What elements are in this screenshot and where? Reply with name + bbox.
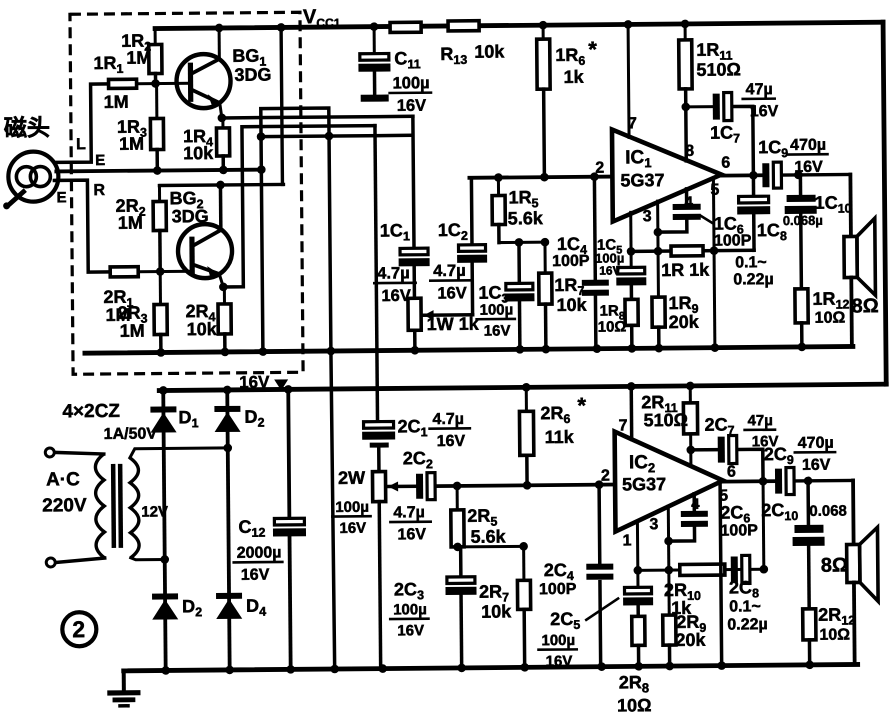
- wire L channel lead: [57, 84, 110, 162]
- capacitor 1C6 100P: [685, 189, 689, 204]
- diode D2: [214, 406, 240, 412]
- wire rectifier branch D1-D3: [163, 390, 165, 670]
- potentiometer 1W 1k: [408, 298, 421, 330]
- preamp dashed enclosure: [70, 12, 303, 374]
- svg-text:47µ: 47µ: [747, 412, 772, 429]
- wire BG2 emitter to 2C1 run: [222, 126, 376, 287]
- svg-text:6: 6: [727, 463, 736, 480]
- capacitor 2C9 470u/16V: [775, 469, 782, 494]
- transistor BG2 3DG: [178, 224, 232, 278]
- wire 2R5 bottom node: [458, 545, 524, 549]
- resistor 2R9 20k: [663, 615, 676, 645]
- terminal AC bottom: [46, 558, 55, 567]
- diode D3: [152, 593, 178, 599]
- svg-text:3DG: 3DG: [234, 65, 271, 85]
- capacitor 1C3 100u/16V: [517, 242, 521, 283]
- svg-text:16V: 16V: [339, 520, 366, 537]
- capacitor 1C10 0.068u: [799, 175, 803, 195]
- transformer secondary winding 12V: [130, 458, 139, 558]
- svg-text:100µ: 100µ: [541, 632, 575, 649]
- svg-text:6: 6: [721, 155, 730, 172]
- capacitor 1C8 0.1-0.22u: [752, 175, 756, 196]
- ground symbol: [122, 671, 126, 693]
- wire BG2 base line: [138, 270, 192, 273]
- svg-text:100P: 100P: [539, 581, 577, 598]
- svg-text:4.7µ: 4.7µ: [393, 504, 425, 521]
- capacitor C12 2000u/16V: [288, 389, 289, 518]
- resistor 2R3 1M: [159, 272, 162, 305]
- wire rectifier branch D2-D4: [227, 390, 229, 670]
- resistor 1R 1k: [671, 246, 703, 256]
- capacitor C11 100u/16V: [373, 27, 376, 54]
- svg-text:1W 1k: 1W 1k: [427, 314, 480, 334]
- wire BG1 emitter node: [220, 103, 222, 118]
- capacitor 2C3 100u/16V: [459, 547, 463, 577]
- magnetic head input transducer: [8, 151, 58, 201]
- svg-text:100P: 100P: [552, 253, 590, 270]
- svg-text:5G37: 5G37: [622, 474, 666, 494]
- op-amp IC1 5G37: [612, 129, 722, 222]
- capacitor 2C4 100P: [597, 485, 601, 564]
- resistor 1R3 1M: [155, 84, 158, 119]
- svg-text:16V: 16V: [397, 526, 426, 543]
- svg-text:3DG: 3DG: [172, 206, 209, 226]
- resistor R13a: [390, 22, 421, 32]
- svg-text:1k: 1k: [671, 598, 692, 618]
- svg-text:8Ω: 8Ω: [851, 295, 878, 317]
- resistor 2R4 10k: [223, 287, 226, 304]
- svg-text:100P: 100P: [720, 522, 758, 539]
- transformer core: [111, 464, 116, 548]
- svg-text:470µ: 470µ: [790, 137, 826, 154]
- svg-text:11k: 11k: [545, 427, 575, 447]
- svg-text:10k: 10k: [474, 41, 505, 61]
- speaker 8ohm bottom: [851, 480, 855, 544]
- resistor 2R7 10k: [522, 546, 525, 580]
- svg-text:1R 1k: 1R 1k: [661, 260, 710, 280]
- resistor 1R9 20k: [652, 297, 665, 327]
- resistor 2R6 11k: [525, 387, 528, 411]
- svg-text:20k: 20k: [675, 630, 706, 650]
- svg-text:100µ: 100µ: [479, 301, 513, 318]
- wire output line: [721, 173, 764, 177]
- resistor 1R8 10ohm: [625, 299, 638, 325]
- capacitor 2C8 0.1-0.22u: [731, 556, 738, 582]
- resistor 2R8 10ohm: [632, 616, 645, 645]
- diode D1: [150, 406, 176, 412]
- svg-text:220V: 220V: [42, 495, 87, 516]
- svg-text:16V: 16V: [437, 284, 467, 302]
- svg-text:100µ: 100µ: [392, 74, 429, 92]
- wire pin3 line: [656, 201, 660, 297]
- capacitor 2C7 47u/16V: [691, 448, 720, 452]
- wire BG1 emitter to 1C1: [222, 116, 413, 118]
- capacitor 1C4 100P: [593, 177, 597, 280]
- wire emitter ground line E: [153, 166, 162, 175]
- svg-text:3: 3: [649, 516, 658, 533]
- svg-text:*: *: [577, 393, 586, 418]
- wire 2C1 long feed vertical: [375, 126, 378, 422]
- svg-text:2: 2: [72, 616, 85, 642]
- svg-text:磁头: 磁头: [4, 114, 50, 140]
- svg-text:2W: 2W: [338, 468, 365, 488]
- resistor 1R1 1M: [109, 79, 137, 88]
- resistor 1R12 10ohm: [795, 289, 808, 323]
- svg-text:1M: 1M: [119, 134, 144, 154]
- wire bottom ground bus: [124, 664, 858, 670]
- svg-text:4.7µ: 4.7µ: [433, 262, 466, 280]
- wire ground bridge: [261, 108, 331, 352]
- svg-text:4.7µ: 4.7µ: [432, 411, 464, 428]
- capacitor 1C2 4.7u/16V: [470, 178, 474, 245]
- wire 1R5 bottom node: [499, 241, 545, 244]
- svg-text:510Ω: 510Ω: [696, 59, 741, 79]
- wire output line bottom: [723, 479, 777, 483]
- svg-text:20k: 20k: [669, 312, 700, 332]
- svg-text:E: E: [95, 152, 105, 169]
- wire BG2 collector line: [159, 184, 283, 185]
- svg-text:1: 1: [623, 532, 632, 549]
- svg-text:R: R: [93, 182, 105, 199]
- wire top ground bus: [85, 346, 853, 353]
- svg-text:10k: 10k: [556, 295, 587, 315]
- svg-text:0.068µ: 0.068µ: [783, 213, 823, 228]
- svg-text:1M: 1M: [126, 48, 151, 68]
- wire Vcc1 top supply bus: [155, 22, 883, 28]
- svg-text:5.6k: 5.6k: [470, 526, 506, 546]
- svg-text:4×2CZ: 4×2CZ: [62, 401, 120, 423]
- svg-text:470µ: 470µ: [798, 435, 834, 452]
- capacitor 2C6 100P: [692, 494, 696, 511]
- svg-text:8: 8: [685, 143, 694, 160]
- svg-text:10k: 10k: [183, 143, 214, 163]
- resistor 2R12 10ohm: [803, 609, 816, 640]
- resistor 1R6 1k: [542, 25, 545, 39]
- svg-text:100P: 100P: [714, 232, 752, 249]
- wire input line to pin2: [469, 177, 612, 178]
- svg-text:L: L: [76, 136, 86, 153]
- svg-text:100µ: 100µ: [335, 499, 369, 516]
- svg-text:10Ω: 10Ω: [819, 627, 850, 644]
- op-amp IC2 5G37: [615, 431, 724, 532]
- svg-text:16V: 16V: [794, 159, 823, 176]
- capacitor 2C5 100u/16V: [636, 521, 640, 587]
- wire secondary bottom lead: [131, 557, 165, 559]
- svg-text:100µ: 100µ: [393, 601, 427, 618]
- svg-text:47µ: 47µ: [746, 81, 773, 98]
- wire BG2 emitter node: [219, 274, 223, 287]
- resistor 1R11 510ohm: [684, 24, 687, 40]
- resistor 1R5 5.6k: [497, 178, 500, 196]
- transformer primary winding: [95, 454, 104, 558]
- svg-text:E: E: [56, 189, 66, 206]
- figure number 2: [62, 612, 96, 646]
- resistor 1R7 10k: [543, 242, 546, 273]
- svg-text:0.22µ: 0.22µ: [733, 271, 774, 288]
- svg-text:16V: 16V: [397, 622, 424, 639]
- resistor R13 10k: [448, 21, 479, 31]
- svg-text:0.22µ: 0.22µ: [727, 616, 768, 633]
- wire pin5 line bottom: [720, 483, 722, 666]
- wire ground return to bottom bus: [331, 351, 335, 669]
- potentiometer 2W: [372, 472, 385, 502]
- svg-text:1M: 1M: [120, 321, 145, 341]
- wire ground spur line: [261, 135, 411, 136]
- svg-text:7: 7: [618, 417, 627, 434]
- wire secondary top lead: [130, 448, 228, 458]
- svg-text:1k: 1k: [563, 67, 584, 87]
- capacitor 2C2 4.7u/16V: [416, 474, 423, 499]
- svg-text:2000µ: 2000µ: [237, 544, 282, 561]
- svg-text:5G37: 5G37: [620, 170, 664, 190]
- svg-text:8Ω: 8Ω: [821, 555, 848, 577]
- svg-text:16V: 16V: [599, 263, 620, 277]
- resistor 2R10 1k: [680, 564, 725, 575]
- resistor 2R11 510ohm: [689, 386, 692, 403]
- wire pin3 line bottom: [667, 506, 671, 615]
- svg-text:0.068: 0.068: [809, 503, 847, 520]
- wire pin5 line: [713, 178, 714, 348]
- svg-text:1M: 1M: [104, 92, 129, 112]
- resistor 2R5 5.6k: [456, 486, 459, 510]
- svg-text:16V: 16V: [241, 567, 270, 584]
- svg-text:A·C: A·C: [46, 469, 80, 490]
- svg-text:1M: 1M: [118, 213, 143, 233]
- svg-text:2: 2: [601, 468, 610, 485]
- svg-text:*: *: [588, 37, 597, 62]
- svg-text:16V: 16V: [750, 103, 779, 120]
- svg-text:510Ω: 510Ω: [643, 410, 688, 430]
- diode D4: [216, 593, 242, 599]
- wire 2C7 riser: [763, 449, 764, 569]
- svg-text:5.6k: 5.6k: [508, 208, 544, 228]
- wire BG1 collector to Vcc: [218, 28, 221, 59]
- capacitor 2C1 4.7u/16V: [364, 421, 394, 428]
- svg-text:1A/50V: 1A/50V: [104, 426, 158, 443]
- wire BG2 collector to Vcc line: [219, 185, 223, 230]
- capacitor 1C1 4.7u/16V: [400, 248, 428, 255]
- capacitor 1C5 100u: [629, 212, 632, 267]
- wire right frame: [883, 22, 886, 384]
- wire pin7 to 16V: [629, 386, 633, 439]
- svg-text:16V: 16V: [397, 97, 427, 115]
- speaker 8ohm top: [848, 174, 852, 236]
- capacitor 1C9 470u/16V: [762, 163, 769, 187]
- svg-text:16V: 16V: [437, 433, 466, 450]
- svg-text:10k: 10k: [187, 319, 218, 339]
- resistor 2R2 1M: [158, 186, 161, 202]
- svg-text:10k: 10k: [481, 601, 512, 621]
- capacitor 2C10 0.068: [806, 481, 810, 525]
- wire wiper line: [388, 485, 418, 489]
- resistor 1R2 1M: [154, 29, 157, 45]
- wire E shield line: [56, 170, 261, 172]
- svg-text:4.7µ: 4.7µ: [377, 264, 410, 282]
- wire Vcc feed to BG2: [281, 27, 282, 184]
- svg-text:10Ω: 10Ω: [815, 310, 846, 327]
- terminal AC top: [45, 448, 54, 457]
- svg-text:16V: 16V: [802, 457, 831, 474]
- wire 1C1 feed vertical: [413, 116, 414, 248]
- wire feedback line bottom: [638, 569, 764, 570]
- svg-text:10Ω: 10Ω: [598, 318, 627, 335]
- svg-text:16V: 16V: [546, 653, 573, 670]
- resistor 2R1 1M: [110, 267, 138, 277]
- svg-text:3: 3: [643, 208, 652, 225]
- svg-text:16V: 16V: [484, 322, 511, 339]
- svg-text:0.1~: 0.1~: [735, 254, 767, 271]
- capacitor 1C7 47u/16V: [686, 105, 715, 108]
- wire feedback line: [631, 250, 754, 251]
- transistor BG1 3DG: [176, 54, 230, 108]
- svg-text:0.1~: 0.1~: [729, 598, 761, 615]
- wire 16V supply bus: [159, 384, 886, 390]
- resistor 1R4 10k: [221, 118, 224, 128]
- wire pin7 to Vcc: [627, 24, 631, 137]
- svg-text:10Ω: 10Ω: [617, 695, 652, 715]
- wire BG1 base line: [137, 82, 191, 85]
- wire R channel lead: [54, 180, 110, 272]
